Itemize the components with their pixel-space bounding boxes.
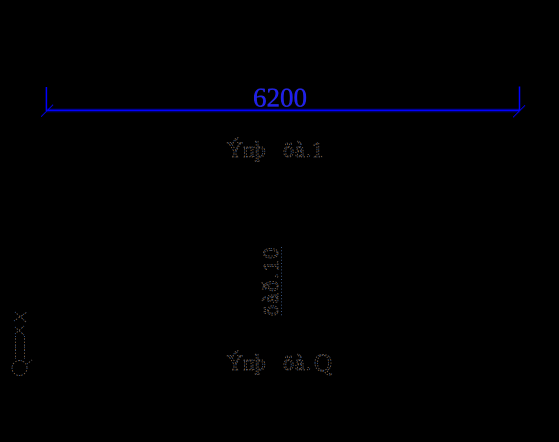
wire extension left <box>45 87 47 111</box>
pole left <box>15 336 17 359</box>
label top: Tip 6a.1 (faint dotted) <box>227 137 324 162</box>
position balloon symbol left <box>12 312 32 376</box>
pole right <box>24 336 26 359</box>
wire vertical dotted <box>281 247 283 317</box>
svg-text:Ýпþ: Ýпþ <box>227 137 266 162</box>
wire glow <box>46 108 519 113</box>
svg-text:öàð.10: öàð.10 <box>258 246 283 316</box>
wire extension right <box>519 87 521 111</box>
arrow X top <box>14 312 27 322</box>
tick left <box>41 105 53 117</box>
wire dimension horizontal <box>46 109 519 111</box>
svg-text:Ýпþ: Ýпþ <box>227 350 266 375</box>
tail <box>27 360 32 364</box>
dimension line 6200 <box>41 87 525 118</box>
svg-text:6200: 6200 <box>253 83 307 113</box>
label bottom: Tip 6a.0 (faint dotted) <box>227 350 332 377</box>
tick right <box>513 105 525 117</box>
vertical label (rotated, faint dotted) <box>258 246 283 317</box>
svg-text:öà.1: öà.1 <box>283 137 324 162</box>
svg-text:Q: Q <box>314 350 332 377</box>
small x <box>15 326 24 335</box>
circle <box>12 361 27 376</box>
svg-text:öà.: öà. <box>283 350 312 375</box>
